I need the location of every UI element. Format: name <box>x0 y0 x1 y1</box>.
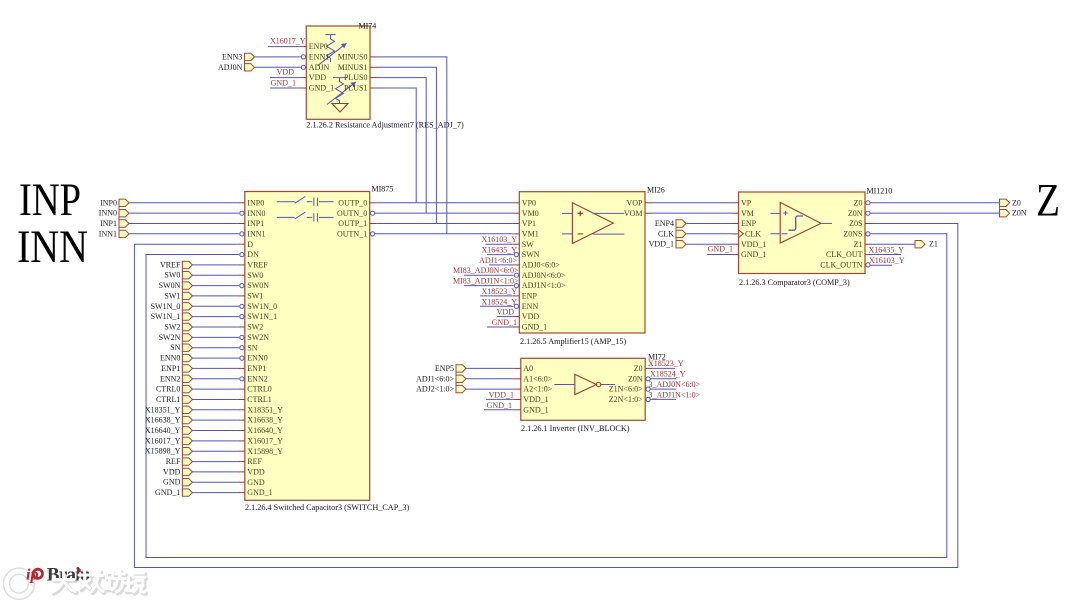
comparator symbol inside MI1210 <box>771 202 833 243</box>
input port SW0N <box>159 281 193 290</box>
pin VP of MI1210 <box>732 198 752 207</box>
input port ADJ2<1:0> <box>416 385 466 394</box>
block MI875 Switched Capacitor3 (SWITCH_CAP_3) <box>245 192 370 501</box>
svg-text:2.1.26.4 Switched Capacitor3 (: 2.1.26.4 Switched Capacitor3 (SWITCH_CAP… <box>245 503 409 512</box>
svg-text:VP1: VP1 <box>522 219 536 228</box>
svg-text:A0: A0 <box>523 364 533 373</box>
wire VDD port to MI875 <box>192 471 237 473</box>
output port Z1 <box>915 240 938 249</box>
wire INP1 port to MI875 <box>129 223 238 225</box>
svg-text:OUTP_0: OUTP_0 <box>338 198 367 207</box>
input port REF <box>166 457 193 466</box>
wire MINUS0 of MI74 down to VM1 net <box>377 57 447 234</box>
svg-text:GND_1: GND_1 <box>247 488 272 497</box>
input port SN <box>170 343 192 352</box>
svg-text:VDD_1: VDD_1 <box>523 395 548 404</box>
svg-text:ENP0: ENP0 <box>309 42 328 51</box>
output port group spine Z0/Z0N <box>999 199 1001 217</box>
svg-text:VDD: VDD <box>497 308 515 317</box>
svg-text:D: D <box>247 240 253 249</box>
svg-text:2.1.26.1 Inverter (INV_BLOCK): 2.1.26.1 Inverter (INV_BLOCK) <box>521 424 630 433</box>
pin Z0N of MI72 <box>628 374 650 383</box>
wire MINUS1 of MI74 down to VP1 net <box>377 67 436 223</box>
wire ENP1 port to MI875 <box>192 367 237 369</box>
svg-text:SW: SW <box>522 240 534 249</box>
wire net VDD_1 to MI72 <box>486 398 514 400</box>
input port SW1N_1 <box>151 312 193 321</box>
wire VREF port to MI875 <box>192 264 237 266</box>
pin SW2 of MI875 <box>238 323 263 332</box>
svg-text:VM0: VM0 <box>522 209 539 218</box>
svg-text:GND: GND <box>247 478 265 487</box>
svg-text:X16017_Y: X16017_Y <box>145 436 181 445</box>
wire ADJ2<1:0> port to MI72 <box>466 388 514 390</box>
svg-text:MI875: MI875 <box>372 184 394 193</box>
svg-text:X16017_Y: X16017_Y <box>270 37 306 46</box>
pin SW1 of MI875 <box>238 292 263 301</box>
svg-text:X16435_Y: X16435_Y <box>481 246 517 255</box>
svg-text:Z: Z <box>1036 175 1060 227</box>
wire X16640_Y port to MI875 <box>192 430 237 432</box>
wire CLK port to MI1210 <box>687 233 732 235</box>
svg-text:OUTP_1: OUTP_1 <box>338 219 367 228</box>
wire SW0 port to MI875 <box>192 274 237 276</box>
pin A2<1:0> of MI72 <box>514 385 553 394</box>
wire net D: Z0S of MI1210 around bottom loop to D of MI875 <box>134 224 957 568</box>
input port VREF <box>160 260 192 269</box>
svg-text:SW0: SW0 <box>164 271 180 280</box>
svg-text:X15898_Y: X15898_Y <box>247 447 283 456</box>
input port INP1 <box>100 219 129 228</box>
input port ENP1 <box>161 364 192 373</box>
watermark red dot over Brain i <box>77 568 81 572</box>
svg-text:MI26: MI26 <box>647 186 665 195</box>
wire net X18524_Y to MI26 <box>480 305 514 307</box>
input port CLK <box>658 229 686 238</box>
svg-text:SW0: SW0 <box>247 271 263 280</box>
svg-text:X16017_Y: X16017_Y <box>247 437 283 446</box>
pin VOM of MI26 <box>624 209 652 218</box>
svg-text:ENN0: ENN0 <box>247 354 267 363</box>
inverter symbol inside MI72 <box>554 374 615 394</box>
input port VDD_1 <box>649 240 686 249</box>
input port INN1 <box>99 229 129 238</box>
wire X16638_Y port to MI875 <box>192 419 237 421</box>
svg-text:VDD: VDD <box>277 68 295 77</box>
svg-text:VOM: VOM <box>624 209 643 218</box>
svg-text:VM: VM <box>741 209 754 218</box>
svg-text:SW1: SW1 <box>247 292 263 301</box>
pin ADJ0<6:0> of MI26 <box>512 261 560 270</box>
wire net Z0N: MI1210 to Z0N port <box>870 212 1000 214</box>
svg-text:CTRL0: CTRL0 <box>247 385 271 394</box>
input port INP0 <box>100 198 129 207</box>
svg-text:ENP: ENP <box>522 292 538 301</box>
pin SN of MI875 <box>240 343 258 352</box>
pin VDD of MI26 <box>512 312 539 321</box>
pin Z2N<1:0> of MI72 <box>609 395 650 404</box>
svg-text:VDD: VDD <box>163 467 181 476</box>
svg-text:INN0: INN0 <box>99 209 117 218</box>
pin D of MI875 <box>238 240 254 249</box>
pin VDD of MI74 <box>299 73 326 82</box>
wire CTRL1 port to MI875 <box>192 399 237 401</box>
svg-text:3_ADJ1N<1:0>: 3_ADJ1N<1:0> <box>649 390 701 399</box>
svg-text:INN0: INN0 <box>247 209 265 218</box>
wire net OUTN_0 to VM0 <box>375 212 513 214</box>
svg-text:ENP1: ENP1 <box>247 364 266 373</box>
pin CTRL0 of MI875 <box>238 385 272 394</box>
svg-text:ADJ0N<6:0>: ADJ0N<6:0> <box>522 271 566 280</box>
svg-text:INP0: INP0 <box>247 198 264 207</box>
output port Z0 <box>1000 198 1021 207</box>
pin INN1 of MI875 <box>240 230 266 239</box>
pin MINUS1 of MI74 <box>338 63 377 72</box>
svg-text:GND_1: GND_1 <box>271 78 296 87</box>
pin VP0 of MI26 <box>512 198 536 207</box>
svg-text:VREF: VREF <box>247 261 268 270</box>
svg-text:X16435_Y: X16435_Y <box>869 245 905 254</box>
wire net OUTP_1 to VP1 <box>377 223 513 225</box>
wire ENN2 port to MI875 <box>192 378 239 380</box>
wire net DN: Z0NS of MI1210 around bottom loop to DN of MI875 <box>146 234 947 558</box>
svg-text:X15898_Y: X15898_Y <box>145 447 181 456</box>
svg-text:ADJ1<6:0>: ADJ1<6:0> <box>416 374 454 383</box>
svg-text:VM1: VM1 <box>522 230 539 239</box>
wire SW1N_0 port to MI875 <box>192 305 239 307</box>
svg-text:VDD_1: VDD_1 <box>649 240 674 249</box>
wire SW1N_1 port to MI875 <box>192 316 239 318</box>
svg-text:ADJ2<1:0>: ADJ2<1:0> <box>416 385 454 394</box>
wire net Z0: MI1210 to Z0 port <box>870 202 1000 204</box>
pin Z0 of MI1210 <box>854 198 870 207</box>
svg-text:GND: GND <box>163 478 181 487</box>
variable resistor symbol top inside MI74 <box>318 35 347 66</box>
svg-text:ADJ0N: ADJ0N <box>218 63 243 72</box>
pin ADJN of MI74 <box>301 63 329 72</box>
pin ENN0 of MI875 <box>240 354 268 363</box>
watermark text 大数跨境 <box>53 571 145 592</box>
svg-text:Z0NS: Z0NS <box>843 230 862 239</box>
svg-text:Z0N: Z0N <box>628 374 643 383</box>
svg-text:GND_1: GND_1 <box>155 488 180 497</box>
svg-text:SW2N: SW2N <box>247 333 269 342</box>
svg-text:Z0: Z0 <box>1012 198 1021 207</box>
wire net MI83_ADJ0N<6:0> to MI26 <box>464 274 514 276</box>
wire CTRL0 port to MI875 <box>192 388 237 390</box>
wire net MI83_ADJ1N<1:0> to MI26 <box>464 285 514 287</box>
wire GND_1 port to MI875 <box>192 492 237 494</box>
svg-text:INP1: INP1 <box>100 219 117 228</box>
wire net OUTP_0 to VP0 <box>377 202 513 204</box>
svg-text:X18523_Y: X18523_Y <box>481 287 517 296</box>
pin SW0N of MI875 <box>240 281 270 290</box>
wire net VDD to MI26 <box>497 316 512 318</box>
svg-text:X18351_Y: X18351_Y <box>247 405 283 414</box>
svg-text:CLK_OUTN: CLK_OUTN <box>820 261 862 270</box>
svg-text:PLUS1: PLUS1 <box>344 84 368 93</box>
block MI1210 Comparator3 (COMP_3) <box>739 192 866 274</box>
svg-text:ENP1: ENP1 <box>161 364 180 373</box>
svg-text:SW2: SW2 <box>164 323 180 332</box>
input port ENN3 <box>222 52 255 61</box>
pin ENN2 of MI875 <box>240 374 268 383</box>
pin CTRL1 of MI875 <box>238 395 272 404</box>
pin VDD_1 of MI1210 <box>732 240 767 249</box>
wire ENN0 port to MI875 <box>192 357 239 359</box>
wire SN port to MI875 <box>192 347 239 349</box>
pin A0 of MI72 <box>514 364 533 373</box>
block MI26 Amplifier15 (AMP_15) <box>519 192 645 333</box>
pin Z0S of MI1210 <box>849 219 872 228</box>
wire net VDD to MI74 <box>270 77 299 79</box>
svg-text:ENP: ENP <box>741 219 757 228</box>
svg-text:GND_1: GND_1 <box>741 250 766 259</box>
wire SW0N port to MI875 <box>192 285 239 287</box>
input port INN0 <box>99 209 129 218</box>
input port X15898_Y <box>145 447 193 456</box>
input port group spine INP0-INN1 <box>118 199 120 237</box>
block MI72 Inverter (INV_BLOCK) <box>521 358 645 420</box>
pin VP1 of MI26 <box>512 219 536 228</box>
pin Z1N<6:0> of MI72 <box>609 385 650 394</box>
wire net X16103_Y at CLK_OUTN of MI1210 <box>870 264 892 266</box>
pin SW0 of MI875 <box>238 271 263 280</box>
pin Z0 of MI72 <box>634 364 652 373</box>
pin Z0NS of MI1210 <box>843 230 870 239</box>
input port ADJ1<6:0> <box>416 374 466 383</box>
svg-text:ENN0: ENN0 <box>160 354 180 363</box>
svg-text:X18524_Y: X18524_Y <box>650 370 686 379</box>
svg-text:VDD: VDD <box>247 468 265 477</box>
pin SWN of MI26 <box>514 250 539 259</box>
ground symbol inside MI74 <box>332 104 348 113</box>
input port SW2N <box>159 333 193 342</box>
svg-text:X18351_Y: X18351_Y <box>145 405 181 414</box>
svg-text:ADJ1<6:0>: ADJ1<6:0> <box>479 256 517 265</box>
svg-text:X16640_Y: X16640_Y <box>247 426 283 435</box>
svg-text:SW1N_1: SW1N_1 <box>151 312 181 321</box>
svg-text:Z0N: Z0N <box>848 209 863 218</box>
svg-text:3_ADJ0N<6:0>: 3_ADJ0N<6:0> <box>649 380 701 389</box>
pin VREF of MI875 <box>238 261 268 270</box>
svg-text:SN: SN <box>170 343 180 352</box>
pin ADJ0N<6:0> of MI26 <box>514 271 566 280</box>
input port X16638_Y <box>145 416 193 425</box>
svg-text:GND_1: GND_1 <box>309 84 334 93</box>
pin Z0N of MI1210 <box>848 209 870 218</box>
pin VM0 of MI26 <box>512 209 538 218</box>
svg-text:CTRL0: CTRL0 <box>156 385 180 394</box>
input port CTRL0 <box>156 385 192 394</box>
pin DN of MI875 <box>240 250 259 259</box>
input port ADJ0N <box>218 63 255 72</box>
input port CTRL1 <box>156 395 192 404</box>
svg-text:SW0N: SW0N <box>247 281 269 290</box>
pin SW of MI26 <box>512 240 534 249</box>
pin ENP0 of MI74 <box>299 42 328 51</box>
svg-text:INN1: INN1 <box>247 230 265 239</box>
svg-text:OUTN_0: OUTN_0 <box>337 209 367 218</box>
pin GND of MI875 <box>238 478 265 487</box>
input port SW0 <box>164 271 192 280</box>
input port column spine VREF..GND_1 <box>181 261 183 496</box>
svg-text:ENP4: ENP4 <box>655 219 674 228</box>
svg-text:ENN1: ENN1 <box>309 53 329 62</box>
wire net X18524_Y at Z0N of MI72 <box>650 378 676 380</box>
wire VDD_1 port to MI1210 <box>687 243 732 245</box>
wire net GND_1 to MI72 <box>484 409 514 411</box>
svg-text:2.1.26.2 Resistance Adjustment: 2.1.26.2 Resistance Adjustment7 (RES_ADJ… <box>306 121 464 130</box>
input port X18351_Y <box>145 405 193 414</box>
svg-text:ENN: ENN <box>522 302 539 311</box>
wire net X16017_Y to ENP0 of MI74 <box>268 46 299 48</box>
input port ENP4 <box>655 219 686 228</box>
svg-text:VP: VP <box>741 198 752 207</box>
pin ENN of MI26 <box>514 302 538 311</box>
switch and capacitor symbol row 1 inside MI875 <box>277 196 334 205</box>
svg-text:X18524_Y: X18524_Y <box>481 297 517 306</box>
svg-text:X18523_Y: X18523_Y <box>648 359 684 368</box>
pin VDD of MI875 <box>238 468 265 477</box>
wire net MI83_ADJ1N at Z2N of MI72 <box>650 398 676 400</box>
svg-text:VOP: VOP <box>626 198 643 207</box>
svg-text:SW1N_0: SW1N_0 <box>151 302 181 311</box>
pin INP0 of MI875 <box>238 198 264 207</box>
svg-text:2.1.26.3 Comparator3 (COMP_3): 2.1.26.3 Comparator3 (COMP_3) <box>739 278 850 287</box>
svg-text:SW1N_0: SW1N_0 <box>247 302 277 311</box>
wire SW1 port to MI875 <box>192 295 237 297</box>
svg-text:ADJ0<6:0>: ADJ0<6:0> <box>522 261 560 270</box>
svg-text:VREF: VREF <box>160 260 181 269</box>
svg-text:ADJN: ADJN <box>309 63 330 72</box>
input port GND <box>163 478 192 487</box>
pin CLK_OUTN of MI1210 <box>820 261 870 270</box>
wire net X16435_Y to MI26 <box>487 254 514 256</box>
pin VM1 of MI26 <box>512 230 538 239</box>
wire INN0 port to MI875 <box>129 212 239 214</box>
svg-text:PLUS0: PLUS0 <box>344 73 368 82</box>
pin X18351_Y of MI875 <box>238 405 283 414</box>
svg-text:X16638_Y: X16638_Y <box>145 416 181 425</box>
wire INP0 port to MI875 <box>129 202 238 204</box>
input port GND_1 <box>155 488 192 497</box>
svg-text:GND_1: GND_1 <box>708 245 733 254</box>
wire ENN3 to ENN1 of MI74 <box>255 56 302 58</box>
svg-text:VP0: VP0 <box>522 198 536 207</box>
svg-text:VDD: VDD <box>522 312 540 321</box>
pin REF of MI875 <box>238 457 263 466</box>
svg-text:Z0N: Z0N <box>1012 209 1027 218</box>
svg-text:SW1N_1: SW1N_1 <box>247 312 277 321</box>
svg-text:Z1: Z1 <box>854 240 863 249</box>
svg-text:SW1: SW1 <box>164 291 180 300</box>
svg-text:MINUS1: MINUS1 <box>338 63 368 72</box>
block MI74 Resistance Adjustment7 (RES_ADJ_7) <box>306 26 370 119</box>
op-amp symbol inside MI26 <box>562 203 624 244</box>
svg-text:ENN2: ENN2 <box>160 374 180 383</box>
clock chevron on CLK pin of MI1210 <box>739 230 744 238</box>
wire net Z1: MI1210 to Z1 port <box>872 243 915 245</box>
wire net X16103_Y to MI26 <box>486 243 513 245</box>
svg-text:Z0: Z0 <box>634 364 643 373</box>
pin ENP of MI26 <box>512 292 537 301</box>
wire REF port to MI875 <box>192 461 237 463</box>
svg-text:VDD_1: VDD_1 <box>741 240 766 249</box>
svg-text:CLK: CLK <box>658 229 674 238</box>
wire X18351_Y port to MI875 <box>192 409 237 411</box>
switch and capacitor symbol row 2 inside MI875 <box>277 212 334 221</box>
svg-text:GND_1: GND_1 <box>522 323 547 332</box>
svg-text:INP1: INP1 <box>247 219 264 228</box>
pin SW1N_0 of MI875 <box>240 302 277 311</box>
pin X16017_Y of MI875 <box>238 437 283 446</box>
wire net GND_1 to MI26 <box>487 326 512 328</box>
svg-text:SW2N: SW2N <box>159 333 181 342</box>
svg-text:ENP5: ENP5 <box>435 364 454 373</box>
svg-text:Z2N<1:0>: Z2N<1:0> <box>609 395 643 404</box>
pin GND_1 of MI74 <box>299 84 334 93</box>
input port group spine ENP4/CLK/VDD_1 <box>675 220 677 248</box>
svg-text:X16103_Y: X16103_Y <box>481 235 517 244</box>
wire net OUTN_1 to VM1 <box>375 233 513 235</box>
svg-text:CTRL1: CTRL1 <box>156 395 180 404</box>
watermark ipBrain logo <box>26 564 91 585</box>
input port SW1 <box>164 291 192 300</box>
wire net X16435_Y at CLK_OUT of MI1210 <box>869 254 901 256</box>
svg-text:VDD_1: VDD_1 <box>489 390 514 399</box>
pin GND_1 of MI1210 <box>732 250 767 259</box>
svg-text:GND_1: GND_1 <box>523 405 548 414</box>
pin ENP of MI1210 <box>732 219 757 228</box>
svg-text:SW2: SW2 <box>247 323 263 332</box>
wire net X18523_Y at Z0 of MI72 <box>652 367 675 369</box>
pin ENN1 of MI74 <box>301 53 329 62</box>
svg-text:INN1: INN1 <box>99 229 117 238</box>
svg-text:MINUS0: MINUS0 <box>338 53 368 62</box>
watermark text shadow <box>54 572 146 593</box>
svg-text:A1<6:0>: A1<6:0> <box>523 374 553 383</box>
svg-text:INP: INP <box>19 174 81 226</box>
input port VDD <box>163 467 192 476</box>
pin PLUS1 of MI74 <box>344 84 377 93</box>
pin GND_1 of MI26 <box>512 323 547 332</box>
svg-text:Z1N<6:0>: Z1N<6:0> <box>609 385 643 394</box>
pin SW1N_1 of MI875 <box>240 312 277 321</box>
pin OUTP_1 of MI875 <box>338 219 376 228</box>
svg-text:2.1.26.5 Amplifier15 (AMP_15): 2.1.26.5 Amplifier15 (AMP_15) <box>520 337 626 346</box>
svg-text:SW0N: SW0N <box>159 281 181 290</box>
svg-text:OUTN_1: OUTN_1 <box>337 230 367 239</box>
wire ADJ1<6:0> port to MI72 <box>466 378 514 380</box>
pin SW2N of MI875 <box>240 333 270 342</box>
wire ADJ0N to ADJN of MI74 <box>255 66 302 68</box>
svg-text:Z1: Z1 <box>929 240 938 249</box>
wire INN1 port to MI875 <box>129 233 239 235</box>
input port X16640_Y <box>145 426 193 435</box>
svg-text:A2<1:0>: A2<1:0> <box>523 385 553 394</box>
variable resistor symbol bottom inside MI74 <box>327 78 356 105</box>
wire net GND_1 to MI1210 <box>707 254 732 256</box>
wire X16017_Y port to MI875 <box>192 440 237 442</box>
pin OUTN_1 of MI875 <box>337 230 375 239</box>
svg-text:Z0S: Z0S <box>849 219 862 228</box>
svg-text:VDD: VDD <box>309 73 327 82</box>
svg-text:Z0: Z0 <box>854 198 863 207</box>
input port ENN0 <box>160 354 192 363</box>
svg-text:REF: REF <box>166 457 181 466</box>
wire net GND_1 to MI74 <box>270 87 299 89</box>
